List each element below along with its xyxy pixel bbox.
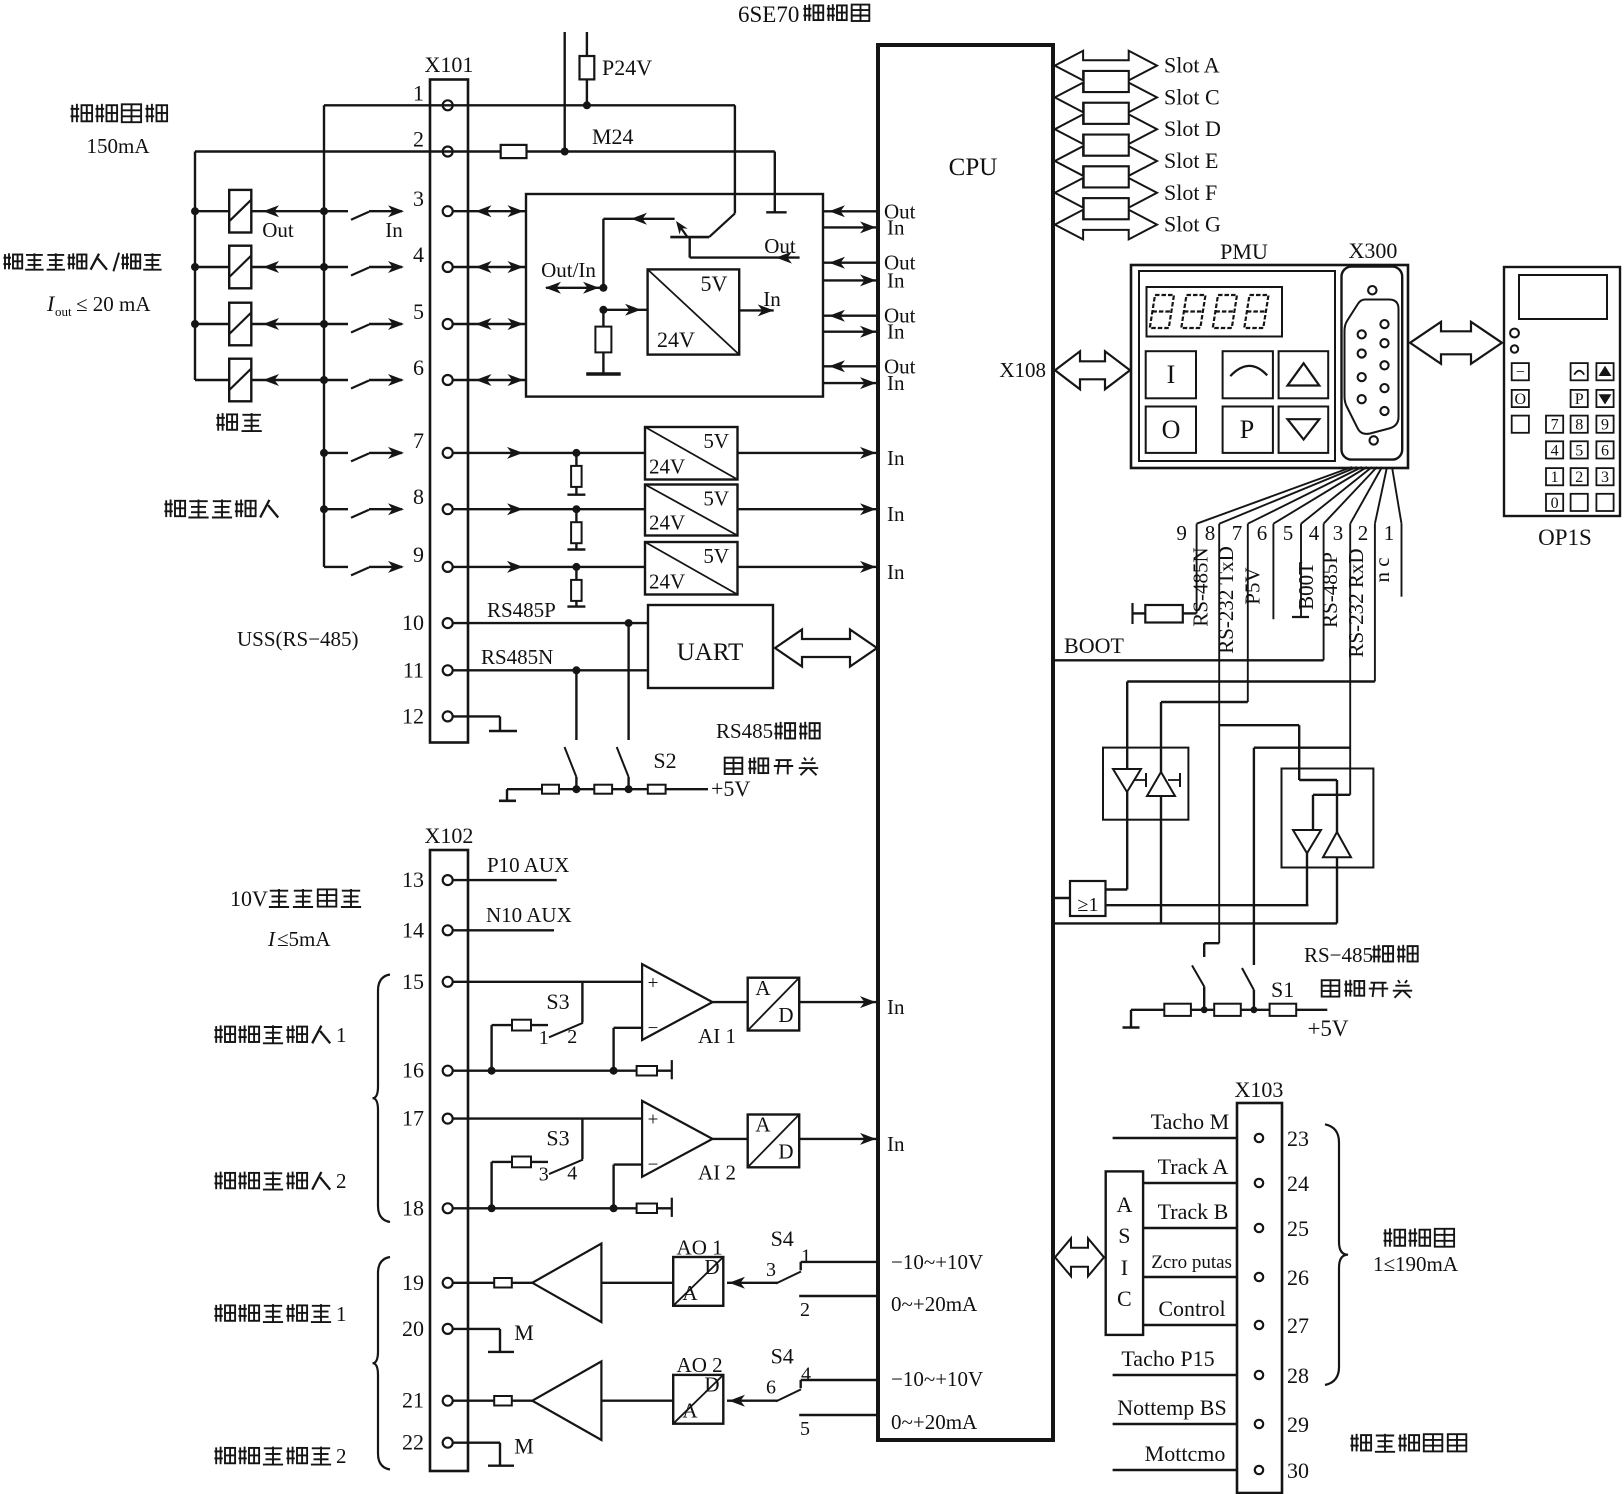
- brace analog inputs: [373, 975, 391, 1223]
- pin 1 of X101: [413, 80, 453, 110]
- svg-text:22: 22: [402, 1430, 424, 1455]
- pin 25 of X103: [1255, 1216, 1309, 1241]
- PMU button down: [1279, 407, 1329, 453]
- bus arrow Slot E: [1055, 146, 1219, 176]
- PMU button O: [1146, 407, 1196, 453]
- svg-text:In: In: [887, 215, 905, 239]
- svg-text:A: A: [755, 976, 771, 1000]
- svg-text:24V: 24V: [649, 511, 685, 535]
- svg-text:C: C: [1117, 1286, 1132, 1311]
- resistor pulldown pin9: [567, 567, 585, 607]
- node S1 junction A: [1201, 1006, 1208, 1013]
- wire Zcro putas: [1143, 1252, 1237, 1277]
- svg-text:Slot G: Slot G: [1164, 212, 1221, 237]
- terminator bar wire5: [1292, 616, 1309, 618]
- svg-text:2: 2: [1575, 469, 1583, 486]
- brace encoder pins: [1325, 1124, 1348, 1385]
- svg-text:+: +: [648, 973, 659, 994]
- wire RS485P to S2: [627, 623, 629, 740]
- svg-text:4: 4: [801, 1364, 811, 1386]
- svg-text:1: 1: [336, 1302, 347, 1326]
- svg-text:Track B: Track B: [1158, 1199, 1229, 1224]
- slot spacer box: [1084, 166, 1129, 187]
- svg-text:A: A: [755, 1113, 771, 1137]
- svg-text:M: M: [514, 1434, 534, 1459]
- svg-text:6SE70: 6SE70: [738, 2, 799, 27]
- bus arrow Slot C: [1055, 83, 1220, 113]
- svg-text:+: +: [648, 1110, 659, 1131]
- svg-text:8: 8: [1575, 417, 1583, 434]
- svg-text:In: In: [887, 1132, 905, 1156]
- svg-text:CPU: CPU: [949, 154, 998, 181]
- pin 20 of X102: [402, 1316, 453, 1341]
- svg-text:In: In: [887, 371, 905, 395]
- pin 16 of X102: [402, 1058, 453, 1083]
- svg-text:P5V: P5V: [1241, 567, 1265, 604]
- pin 4 of X101: [413, 242, 453, 272]
- switch S1 blade left: [1192, 965, 1204, 1009]
- svg-text:9: 9: [1176, 521, 1187, 545]
- terminal block X102: [425, 823, 474, 1471]
- opto diode D1 (down): [1113, 769, 1146, 792]
- svg-text:Track A: Track A: [1158, 1154, 1229, 1179]
- bus arrow Slot G: [1055, 210, 1221, 240]
- switch S2 blade left: [565, 747, 577, 789]
- svg-text:O: O: [1162, 415, 1181, 444]
- terminator chain S1: [1131, 1004, 1327, 1016]
- wire contact 5 to CPU: [799, 1415, 878, 1440]
- svg-text:USS(RS−485): USS(RS−485): [237, 627, 359, 651]
- PMU button I: [1146, 351, 1196, 398]
- svg-text:≥1: ≥1: [1078, 894, 1099, 916]
- terminal block X103: [1235, 1077, 1284, 1493]
- svg-text:2: 2: [336, 1444, 347, 1468]
- wire X300 pin 8: [1205, 467, 1357, 943]
- wire Track B: [1143, 1199, 1237, 1228]
- svg-text:27: 27: [1287, 1313, 1309, 1338]
- wire contact 2 to CPU: [799, 1296, 878, 1321]
- svg-text:1: 1: [801, 1245, 811, 1267]
- label 模拟量输出2: [214, 1444, 346, 1468]
- wire pin4 to I/O cell with bidir arrows: [453, 261, 526, 273]
- wire Track A: [1143, 1154, 1237, 1183]
- svg-text:In: In: [763, 287, 781, 311]
- switch S1 blade right: [1242, 968, 1254, 1010]
- D/A converter AO 1: [673, 1235, 723, 1306]
- label 电阻开关 (S2): [725, 757, 819, 775]
- wire Out line to CPU: [823, 251, 916, 275]
- wire Tacho M: [1113, 1109, 1237, 1138]
- wire bus A (digital out common): [194, 152, 196, 381]
- svg-text:RS-232 TxD: RS-232 TxD: [1214, 546, 1238, 654]
- resistor gnd terminator: [637, 1198, 672, 1217]
- svg-text:6: 6: [766, 1377, 776, 1399]
- wire pin15 to amplifier: [452, 982, 642, 1023]
- svg-text:24V: 24V: [649, 455, 685, 479]
- ground M pin20: [452, 1320, 533, 1352]
- svg-text:9: 9: [413, 542, 424, 567]
- wire converter to CPU row 7: [738, 446, 905, 470]
- svg-text:15: 15: [402, 969, 424, 994]
- wire M24 rail: [195, 150, 775, 152]
- wire RS-485P feed D3: [1313, 795, 1350, 830]
- svg-text:24V: 24V: [657, 327, 695, 352]
- svg-text:7: 7: [1232, 521, 1243, 545]
- wire Out line to CPU: [823, 199, 916, 223]
- svg-text:21: 21: [402, 1388, 424, 1413]
- ground bar in cell: [586, 372, 621, 375]
- pin 18 of X102: [402, 1195, 453, 1220]
- switch contact row pin 3: [324, 205, 404, 220]
- optocoupler OC2 (digital I/O): [195, 246, 324, 289]
- node bus B junction: [320, 320, 328, 328]
- wire gate to driver D3: [1106, 853, 1309, 905]
- node M24 junction: [561, 32, 634, 156]
- optocoupler box U3: [1103, 748, 1188, 820]
- DC converter 5V/24V (cell): [648, 269, 740, 354]
- svg-text:12: 12: [402, 703, 424, 728]
- svg-text:Slot C: Slot C: [1164, 84, 1220, 109]
- svg-text:D: D: [704, 1373, 719, 1397]
- label 电阻开关 (S1): [1322, 980, 1413, 998]
- wire inverting input: [614, 1165, 643, 1209]
- svg-text:5V: 5V: [703, 429, 729, 453]
- node bus B junction: [320, 449, 328, 457]
- svg-text:In: In: [887, 560, 905, 584]
- svg-text:6: 6: [1601, 442, 1609, 459]
- pin 24 of X103: [1255, 1171, 1309, 1196]
- svg-text:X108: X108: [999, 358, 1046, 382]
- ground M pin12: [452, 716, 517, 731]
- svg-text:≤ 20 mA: ≤ 20 mA: [76, 292, 151, 316]
- svg-text:Slot E: Slot E: [1164, 148, 1218, 173]
- wire Nottemp BS: [1113, 1395, 1237, 1424]
- node bus B junction: [320, 263, 328, 271]
- wire A/D to CPU: [799, 1132, 905, 1156]
- svg-text:7: 7: [1551, 417, 1559, 434]
- svg-text:−: −: [1516, 364, 1525, 381]
- wire X300 pin 4: [1309, 467, 1377, 660]
- svg-text:0: 0: [1551, 495, 1559, 512]
- svg-text:P10 AUX: P10 AUX: [487, 853, 569, 877]
- pin 14 of X102: [402, 917, 453, 942]
- amplifier AO 2: [532, 1361, 601, 1440]
- label 模拟量输出1: [214, 1302, 346, 1326]
- optocoupler OC4 (digital I/O): [195, 359, 324, 402]
- X300 pin holes: [1358, 286, 1389, 445]
- wire pin17 to amplifier: [452, 1119, 642, 1160]
- A/D converter (AI 1): [748, 976, 800, 1031]
- svg-text:AI 1: AI 1: [698, 1024, 736, 1048]
- svg-text:A: A: [1116, 1192, 1132, 1217]
- transistor Q1: [670, 105, 735, 237]
- node bus B junction: [320, 505, 328, 513]
- svg-text:0~+20mA: 0~+20mA: [891, 1292, 978, 1316]
- label 温度传感器: [1350, 1434, 1466, 1452]
- svg-text:3: 3: [1333, 521, 1344, 545]
- wire RS485N pin11: [452, 645, 648, 670]
- wire RS-232 TxD to opto: [1161, 702, 1248, 772]
- svg-text:M24: M24: [592, 124, 634, 149]
- wire D1 to gate: [1106, 792, 1128, 890]
- switch S4 (3): [727, 1226, 801, 1289]
- gate >=1 U4: [1070, 881, 1106, 916]
- resistor on pin2 line: [501, 145, 527, 158]
- svg-text:5V: 5V: [703, 487, 729, 511]
- svg-text:+5V: +5V: [1307, 1016, 1348, 1041]
- pin 11 of X101: [403, 657, 453, 682]
- node bus A junction: [191, 207, 199, 215]
- svg-text:4: 4: [413, 242, 424, 267]
- svg-text:10: 10: [402, 610, 424, 635]
- svg-text:In: In: [887, 446, 905, 470]
- wire pin19 output with resistor: [452, 1278, 532, 1288]
- pin 19 of X102: [402, 1270, 453, 1295]
- PMU operator panel: [1131, 239, 1408, 468]
- wire Tacho P15: [1113, 1346, 1237, 1375]
- slot spacer box: [1084, 71, 1129, 92]
- svg-text:In: In: [887, 268, 905, 292]
- svg-text:25: 25: [1287, 1216, 1309, 1241]
- wire In line to CPU: [823, 320, 905, 344]
- svg-text:Out/In: Out/In: [541, 258, 596, 282]
- wire converter to CPU row 9: [738, 560, 905, 584]
- switch contact row pin 5: [324, 318, 404, 333]
- svg-text:−10~+10V: −10~+10V: [891, 1250, 983, 1274]
- pin 22 of X102: [402, 1430, 453, 1455]
- node P24V junction: [583, 101, 591, 109]
- node S2 chain junction A: [572, 785, 580, 793]
- label Out/In and bidir arrow: [541, 258, 601, 294]
- wire pin6 to I/O cell with bidir arrows: [453, 374, 526, 386]
- wire RS485N to S2: [575, 670, 577, 740]
- bus arrow X300 to OP1S: [1410, 322, 1502, 364]
- node bus A junction: [191, 263, 199, 271]
- node pulldown junction pin8: [572, 505, 580, 513]
- slot spacer box: [1084, 198, 1129, 219]
- wire contact 1 to CPU: [801, 1245, 878, 1270]
- wire P10 AUX: [452, 853, 569, 880]
- svg-text:I: I: [1121, 1255, 1128, 1280]
- node pulldown junction pin9: [572, 563, 580, 571]
- svg-text:OP1S: OP1S: [1538, 525, 1592, 550]
- svg-text:I: I: [267, 927, 276, 951]
- svg-text:In: In: [385, 218, 403, 242]
- op-amp AI 2: [642, 1101, 736, 1185]
- svg-text:4: 4: [1551, 442, 1559, 459]
- svg-text:X103: X103: [1235, 1077, 1284, 1102]
- wire N10 AUX: [452, 903, 571, 930]
- RS-485 transceiver box U5: [1282, 769, 1374, 868]
- node gnd junction B: [610, 1067, 618, 1075]
- switch S2 blade right: [617, 747, 629, 789]
- svg-text:5: 5: [1575, 442, 1583, 459]
- switch contact row pin 6: [324, 374, 404, 389]
- svg-text:3: 3: [1601, 469, 1609, 486]
- wire to DC converter with arrow: [603, 304, 647, 316]
- svg-text:11: 11: [403, 657, 424, 682]
- wire In line to CPU: [823, 371, 905, 395]
- svg-text:RS−485: RS−485: [1304, 943, 1373, 967]
- svg-text:17: 17: [402, 1106, 424, 1131]
- resistor gnd terminator: [637, 1060, 672, 1079]
- ground S1 chain: [1123, 1010, 1140, 1028]
- switch contact row pin 4: [324, 261, 404, 276]
- wire pin18 ground line: [452, 1207, 636, 1209]
- svg-text:10V: 10V: [230, 886, 268, 911]
- wire A/D to CPU: [799, 995, 905, 1019]
- wire In arrow from converter: [739, 287, 781, 316]
- wire X300 pin 9: [1176, 467, 1352, 613]
- label RS-485终端: [1304, 943, 1418, 967]
- wire X300 pin 1: [1384, 467, 1402, 597]
- svg-text:S: S: [1118, 1223, 1130, 1248]
- wire amp to A/D: [713, 1001, 748, 1003]
- svg-text:Tacho M: Tacho M: [1151, 1109, 1230, 1134]
- amplifier AO 1: [532, 1244, 601, 1323]
- DC converter 5V/24V row 8: [645, 485, 738, 536]
- node pulldown junction pin7: [572, 449, 580, 457]
- wire pin7 input line: [452, 447, 645, 459]
- driver D4 (up triangle): [1323, 832, 1351, 857]
- svg-text:8: 8: [1205, 521, 1216, 545]
- bus arrow X108 CPU to PMU: [999, 351, 1130, 389]
- wire CPU to gate input: [1053, 897, 1070, 899]
- node bus B junction: [320, 376, 328, 384]
- wire converter to CPU row 8: [738, 502, 905, 526]
- svg-text:In: In: [887, 502, 905, 526]
- wire M24 into cell with terminal bar: [766, 152, 786, 213]
- node bus B junction: [320, 207, 328, 215]
- switch contact row pin 8: [324, 503, 404, 518]
- svg-text:out: out: [55, 304, 72, 319]
- driver D3 (down triangle): [1293, 830, 1321, 853]
- resistor terminator wire9: [1133, 603, 1197, 624]
- svg-text:Tacho P15: Tacho P15: [1121, 1346, 1214, 1371]
- wire In line to CPU: [823, 215, 905, 239]
- label 辅助电源: [71, 104, 168, 122]
- label Iout<=20mA: [46, 291, 151, 319]
- wire X300 pin 6: [1257, 467, 1367, 619]
- svg-text:UART: UART: [677, 639, 744, 666]
- D/A converter AO 2: [673, 1353, 723, 1424]
- wire contact 4 to CPU: [801, 1364, 878, 1389]
- resistor pulldown in cell: [595, 310, 611, 374]
- pin 27 of X103: [1255, 1313, 1309, 1338]
- wire Out line to CPU: [823, 304, 916, 328]
- svg-text:2: 2: [567, 1026, 577, 1048]
- svg-text:18: 18: [402, 1195, 424, 1220]
- svg-text:D: D: [778, 1140, 793, 1164]
- node gnd junction B: [610, 1204, 618, 1212]
- svg-text:B00T: B00T: [1294, 562, 1318, 610]
- wire S3 to ground rail: [490, 1025, 492, 1071]
- svg-text:−: −: [648, 1018, 659, 1039]
- svg-text:O: O: [1515, 391, 1527, 408]
- ground M pin22: [452, 1434, 533, 1466]
- OP1S keypad buttons: [1512, 363, 1614, 512]
- node S1 junction B: [1251, 1006, 1258, 1013]
- wire amp to D/A (AO 2): [601, 1399, 673, 1401]
- svg-text:Mottcmo: Mottcmo: [1145, 1441, 1226, 1466]
- svg-text:RS-232 RxD: RS-232 RxD: [1344, 548, 1368, 657]
- label 模拟量输入1: [214, 1023, 346, 1047]
- svg-text:In: In: [887, 320, 905, 344]
- pin 30 of X103: [1255, 1458, 1309, 1483]
- bus arrow UART to CPU: [775, 630, 877, 667]
- svg-text:19: 19: [402, 1270, 424, 1295]
- digital I/O cell box: [526, 194, 823, 397]
- pin 2 of X101: [413, 127, 453, 157]
- svg-text:S2: S2: [653, 748, 676, 773]
- svg-text:29: 29: [1287, 1412, 1309, 1437]
- terminal block X101: [425, 52, 474, 743]
- wire D2 to common line: [1160, 796, 1162, 923]
- DC converter 5V/24V row 7: [645, 427, 738, 480]
- wire pin5 to I/O cell with bidir arrows: [453, 318, 526, 330]
- wire pin8 input line: [452, 503, 645, 515]
- label 输出 (outputs): [216, 413, 261, 431]
- svg-text:150mA: 150mA: [87, 134, 151, 158]
- label RS485终端: [716, 719, 820, 743]
- svg-text:−: −: [648, 1155, 659, 1176]
- label 10V参考电压: [230, 886, 361, 911]
- DC converter 5V/24V row 9: [645, 542, 738, 595]
- wire amp to D/A (AO 1): [601, 1282, 673, 1284]
- svg-text:D: D: [778, 1003, 793, 1027]
- svg-text:2: 2: [1358, 521, 1369, 545]
- node gnd junction A: [488, 1067, 496, 1075]
- pin 21 of X102: [402, 1388, 453, 1413]
- wire S3 to ground rail: [490, 1162, 492, 1208]
- resistor pulldown pin7: [567, 453, 585, 495]
- switch S3 (1-2): [492, 989, 583, 1049]
- label 编码器: [1384, 1228, 1455, 1246]
- svg-text:26: 26: [1287, 1265, 1309, 1290]
- svg-text:Slot A: Slot A: [1164, 53, 1220, 78]
- svg-text:−10~+10V: −10~+10V: [891, 1367, 983, 1391]
- terminator chain S2: [507, 785, 708, 794]
- svg-text:S4: S4: [771, 1226, 794, 1251]
- pin 29 of X103: [1255, 1412, 1309, 1437]
- pin 9 of X101: [413, 542, 453, 572]
- svg-text:N10 AUX: N10 AUX: [486, 903, 572, 927]
- pin 17 of X102: [402, 1106, 453, 1131]
- svg-text:X102: X102: [425, 823, 474, 848]
- svg-text:n c: n c: [1370, 557, 1394, 582]
- wire RS-485N branch to transceiver: [1219, 725, 1299, 780]
- svg-text:In: In: [887, 995, 905, 1019]
- svg-text:16: 16: [402, 1058, 424, 1083]
- wire bus B (digital in common): [323, 105, 325, 567]
- svg-text:3: 3: [766, 1259, 776, 1281]
- svg-text:RS485: RS485: [716, 719, 773, 743]
- pin 13 of X102: [402, 867, 453, 892]
- slot spacer box: [1084, 135, 1129, 156]
- node converter feed junction: [599, 306, 607, 314]
- svg-text:Nottemp BS: Nottemp BS: [1117, 1395, 1226, 1420]
- wire X300 pin 2: [1358, 467, 1387, 682]
- pin 12 of X101: [402, 703, 453, 728]
- svg-text:Out: Out: [764, 234, 796, 258]
- svg-text:6: 6: [413, 355, 424, 380]
- PMU 7-segment display: [1147, 287, 1283, 337]
- svg-text:A: A: [682, 1399, 698, 1423]
- svg-text:P24V: P24V: [602, 55, 652, 80]
- wire RS485P pin10: [452, 598, 648, 623]
- brace analog outputs: [373, 1257, 391, 1470]
- svg-text:5: 5: [413, 299, 424, 324]
